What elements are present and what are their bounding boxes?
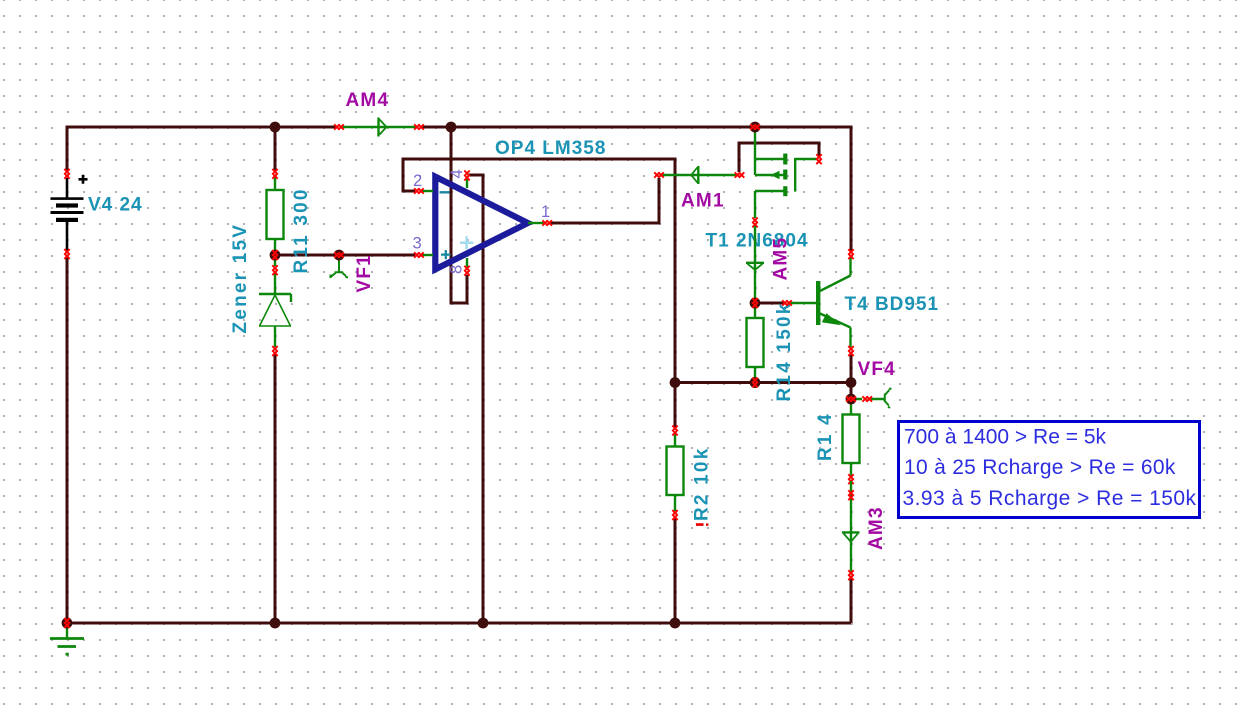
svg-text:R11 300: R11 300: [291, 187, 312, 273]
svg-text:700 à 1400 > Re = 5k: 700 à 1400 > Re = 5k: [904, 426, 1106, 449]
svg-text:Zener 15V: Zener 15V: [230, 223, 251, 334]
ammeter AM5 on T1 source: [746, 226, 764, 303]
wire top rail left segment: [67, 127, 337, 172]
node dot top rail at 451: [446, 122, 457, 133]
node dot zener ground: [270, 618, 281, 629]
svg-text:3.93 à 5 Rcharge > Re = 150k: 3.93 à 5 Rcharge > Re = 150k: [903, 487, 1197, 510]
node dot R14 bottom: [750, 377, 761, 388]
svg-text:3: 3: [413, 235, 422, 253]
wire top rail right segment with right drop to T4 collector: [420, 127, 851, 251]
ammeter AM3: [842, 481, 860, 580]
wire op-amp output to AM1: [550, 178, 659, 223]
wire AM1 to mosfet gate: [739, 143, 819, 172]
annotation box: [899, 422, 1200, 518]
svg-text:T4 BD951: T4 BD951: [845, 294, 940, 315]
svg-text:1: 1: [541, 203, 550, 221]
node dot top rail at R11: [270, 122, 281, 133]
wire op-amp pin4 to ground rail: [469, 175, 483, 623]
wire R2 bottom to ground rail: [674, 518, 677, 623]
node dot pin4 ground: [478, 618, 489, 629]
svg-text:10 à 25 Rcharge > Re = 60k: 10 à 25 Rcharge > Re = 60k: [904, 456, 1176, 479]
wire zener bottom branch: [274, 354, 277, 623]
node dot VF1: [334, 250, 345, 261]
op-amp OP4: [414, 171, 552, 276]
svg-text:AM3: AM3: [866, 506, 887, 550]
svg-text:V4 24: V4 24: [88, 195, 143, 216]
svg-text:AM4: AM4: [346, 90, 390, 111]
svg-text:2: 2: [413, 172, 422, 190]
node dot T1 source R14: [750, 298, 761, 309]
transistor T4: [782, 249, 854, 356]
wire VF1 node to op-amp pin3: [275, 254, 415, 257]
node dot emitter rail: [846, 377, 857, 388]
resistor R1: [843, 403, 860, 484]
svg-text:8: 8: [448, 265, 466, 274]
resistor R11: [267, 169, 284, 266]
svg-text:R1 4: R1 4: [815, 412, 836, 461]
zener diode: [259, 265, 291, 356]
node dot feedback R2: [670, 377, 681, 388]
wire feedback pin2 loop to node at 675,382: [403, 159, 675, 383]
node dot top rail at T1 drain: [750, 122, 761, 133]
resistor R14: [747, 303, 764, 382]
resistor R2: [667, 426, 684, 520]
svg-text:T1 2N6804: T1 2N6804: [706, 231, 809, 252]
node dot zener R11: [270, 250, 281, 261]
ammeter AM4: [334, 118, 424, 137]
svg-text:4: 4: [448, 169, 466, 178]
node dot R2 ground: [670, 618, 681, 629]
wire battery bottom to ground rail: [66, 257, 69, 623]
mosfet T1: [752, 131, 821, 227]
wire mid rail 675-851 at y382: [675, 381, 851, 384]
svg-text:VF4: VF4: [858, 359, 896, 380]
node dot ground left: [62, 618, 73, 629]
node dot VF4: [846, 394, 857, 405]
wire R2 top lead: [674, 383, 677, 428]
probe VF4: [851, 389, 892, 408]
wire bottom ground rail: [67, 622, 851, 625]
svg-text:R14 150k: R14 150k: [774, 301, 795, 401]
svg-text:AM1: AM1: [681, 191, 725, 212]
wire T4 emitter to mid rail and VF4 node: [850, 355, 853, 395]
battery V4: [51, 169, 88, 259]
wire op-amp pin8 hook from top rail: [451, 127, 467, 303]
ammeter AM1: [654, 166, 744, 184]
wire R11 branch top: [274, 127, 277, 171]
label i current: [696, 523, 709, 526]
ground: [50, 627, 84, 654]
wire T1 source node to T4 base: [755, 302, 784, 305]
svg-text:VF1: VF1: [354, 254, 375, 292]
svg-text:R2 10k: R2 10k: [692, 447, 713, 521]
wire AM3 bottom to ground rail: [850, 579, 853, 623]
svg-text:AM5: AM5: [771, 237, 792, 281]
svg-text:OP4 LM358: OP4 LM358: [495, 138, 606, 159]
probe VF1: [331, 257, 349, 278]
